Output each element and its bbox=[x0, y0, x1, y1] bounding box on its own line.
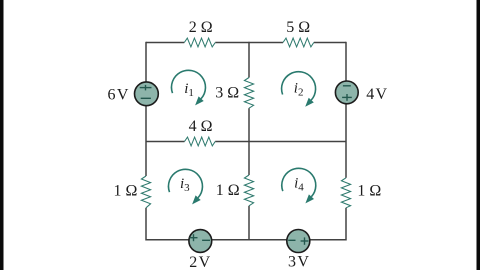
voltage source 4V bbox=[335, 81, 358, 104]
wire middle vertical upper bbox=[248, 42, 250, 78]
voltage source 2V bbox=[189, 230, 212, 253]
svg-text:2 V: 2 V bbox=[189, 254, 210, 270]
svg-text:6 V: 6 V bbox=[108, 87, 129, 104]
svg-text:2 Ω: 2 Ω bbox=[189, 19, 213, 36]
mesh current loop i2 bbox=[282, 72, 316, 107]
wire left vertical upper bbox=[145, 42, 147, 82]
resistor R 1ohm middle bbox=[244, 175, 253, 206]
svg-text:3 V: 3 V bbox=[288, 253, 309, 270]
svg-text:1 Ω: 1 Ω bbox=[216, 182, 240, 199]
wire top left segment bbox=[146, 42, 184, 44]
voltage source 6V bbox=[135, 82, 159, 106]
wire top middle segment bbox=[215, 42, 283, 44]
mesh current loop i4 bbox=[282, 168, 316, 203]
wire bottom left segment bbox=[146, 239, 189, 241]
wire right vertical middle bbox=[345, 104, 347, 178]
wire middle horizontal right segment bbox=[215, 141, 346, 143]
mesh current loop i3 bbox=[168, 169, 202, 204]
svg-text:4 Ω: 4 Ω bbox=[189, 118, 213, 135]
mesh current loop i1 bbox=[171, 70, 205, 105]
svg-text:1 Ω: 1 Ω bbox=[357, 183, 381, 200]
right black border bar bbox=[477, 0, 480, 270]
svg-text:4 V: 4 V bbox=[366, 86, 387, 103]
wire middle horizontal left segment bbox=[146, 141, 185, 143]
wire bottom middle segment bbox=[212, 239, 287, 241]
voltage source 3V bbox=[287, 230, 310, 253]
wire bottom right segment bbox=[310, 239, 346, 241]
wire middle vertical mid bbox=[248, 108, 250, 175]
resistor R 2ohm bbox=[184, 38, 215, 47]
left black border bar bbox=[0, 0, 4, 270]
wire right vertical lower bbox=[345, 208, 347, 241]
wire right vertical upper bbox=[345, 42, 347, 81]
resistor R 4ohm bbox=[185, 137, 216, 146]
wire middle vertical lower bbox=[248, 206, 250, 241]
wire left vertical middle bbox=[145, 106, 147, 176]
svg-text:1 Ω: 1 Ω bbox=[114, 183, 138, 200]
resistor R 1ohm right bbox=[341, 178, 350, 208]
resistor R 5ohm bbox=[283, 38, 314, 47]
resistor R 3ohm bbox=[244, 78, 253, 109]
svg-text:5 Ω: 5 Ω bbox=[286, 19, 310, 36]
svg-text:3 Ω: 3 Ω bbox=[215, 84, 239, 101]
resistor R 1ohm left bbox=[141, 176, 150, 208]
wire left vertical lower bbox=[145, 208, 147, 241]
wire top right segment bbox=[314, 42, 346, 44]
